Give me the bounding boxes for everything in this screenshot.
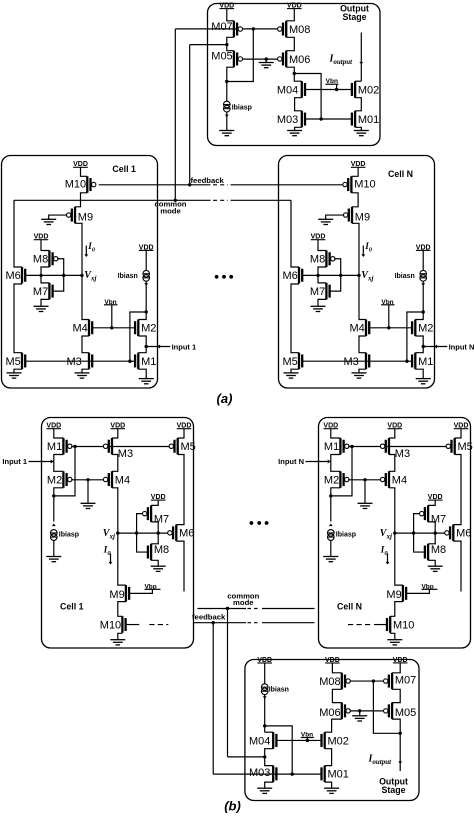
wire M8 source lead cell 1 b [151,533,158,544]
svg-text:M02: M02 [328,735,349,747]
transistor M1 cell N (a) [412,353,433,370]
junction M1 gate cell N [405,360,408,363]
ground Ibiasp cell 1 b [46,557,61,562]
svg-text:M10: M10 [65,178,86,190]
transistor M08 (b out) [319,673,350,690]
transistor M07 [211,21,242,38]
transistor M8 cell 1 (a) [33,251,58,268]
transistor M6 cell 1 (a) [6,267,26,284]
wire VDD to Ibiasn (b out) [264,663,266,684]
ground under M7 cell 1 [34,306,49,311]
transistor M7 cell N b [420,505,447,525]
wire M4-M2 gate line Vbn cell N [369,327,412,329]
transistor M08 [278,21,311,38]
junction M7/M8 gate vert cell N b [412,531,415,534]
wire M2 drain node cell N b [331,488,341,522]
transistor M2 cell N (a) [412,320,433,337]
wire input cell 1 [146,346,170,348]
wire M6 drain rail cell N b [453,541,461,591]
ground mid cell 1 b [81,503,96,508]
junction cascode gate ground [265,57,268,60]
svg-text:M2: M2 [418,323,433,335]
svg-text:M1: M1 [47,441,62,453]
svg-text:M6: M6 [456,528,471,540]
svg-text:M04: M04 [277,84,298,96]
svg-text:M8: M8 [431,544,446,556]
ground under M03 (a out) [287,131,302,136]
arrow Ibiasp [225,115,229,118]
svg-text:M02: M02 [358,84,379,96]
junction M06 drain node [293,72,296,75]
wire M7 gate down cell 1 b [137,514,143,533]
svg-text:Ibiasp: Ibiasp [59,531,79,538]
wire M07 drain to M05 source, node feedback-in [227,37,234,50]
transistor M05 [211,51,242,68]
svg-text:M05: M05 [211,51,232,63]
wire M2 source lead cell 1 [138,312,146,320]
svg-text:M10: M10 [393,619,414,631]
Io arrow cell 1 [85,246,87,255]
wire gate node to M05 drain (b out) [373,681,400,733]
VDD left (b out) [257,657,272,664]
ground under Ibiasp [219,131,234,136]
wire M01 drain to ground [355,127,361,130]
wire M8 drain to M7 source cell N [318,267,326,283]
svg-text:M08: M08 [319,676,340,688]
svg-text:M5: M5 [181,441,196,453]
wire Ibiasn to M04 source (b out) [264,695,266,733]
wire Ibiasp to ground cell 1 b [53,541,55,557]
transistor M04 (a out) [277,81,305,98]
wire Ibiasp to ground [226,112,228,131]
junction Vbn (b out) [306,739,309,742]
junction Vxj cell N b [393,531,396,534]
arrow Ibiasn cell 1 [144,283,148,286]
wire M10 drain to M9 source cell1 [75,193,87,207]
transistor M7 cell 1 b [143,505,170,525]
wire M8 drain to ground cell 1 b [151,560,158,566]
transistor M2 cell N b [324,471,349,488]
wire common vertical (b) [227,609,229,757]
junction input node cell 1 [145,345,148,348]
junction M1 gate cell 1 b [73,445,76,448]
output stage (b) box [245,660,419,801]
wire M04 drain to M03 source (b out) [265,749,274,766]
svg-text:M7: M7 [154,513,169,525]
arrow Ibiasp cell N b [329,524,333,527]
junction M8 drain cell N [316,274,319,277]
svg-text:M07: M07 [211,21,232,33]
ground under M01 (a out) [354,131,369,136]
wire M9 gate Vbp cell N b [406,589,429,593]
ground under M3 cell 1 [75,373,90,378]
junction M2 drain cell 1 b [52,494,55,497]
ground under M1 cell N [416,379,431,384]
arrow Ibiasp cell 1 b [52,524,56,527]
wire VDD to M08 source [286,9,294,21]
svg-text:M4: M4 [73,323,88,335]
wire M01 drain to ground (b out) [325,782,332,788]
common-mode line (b) [197,608,246,610]
wire M8 source lead cell N b [428,533,435,544]
VDD rail for M08 [287,3,302,10]
junction M05 drain node [225,80,228,83]
VDD for M8 cell N [311,234,326,241]
wire bias branch down (b out) [265,726,293,774]
current source Ibiasp (a) [224,101,231,112]
wire M9 drain to M10 source cell1 b [118,602,126,617]
wire M05 node to gate bias node [227,29,254,82]
ground at M05/M06 gates [259,63,274,68]
VDD M5 cell 1 b [177,423,192,430]
svg-text:M3: M3 [118,448,133,460]
transistor M5 cell N b [446,438,473,455]
transistor M8 cell 1 b [148,544,169,561]
svg-text:M01: M01 [358,114,379,126]
svg-text:M7: M7 [310,286,325,298]
svg-text:M2: M2 [141,323,156,335]
VDD M7 cell 1 b [151,494,166,501]
svg-text:M10: M10 [100,619,121,631]
junction Vbn [335,88,338,91]
wire M8 gate up cell N b [414,533,425,552]
svg-text:Cell N: Cell N [337,602,362,612]
junction M7/M8 gate vert cell 1 b [135,531,138,534]
wire M7 gate down cell N b [414,514,420,533]
junction M7 drain cell 1 b [157,531,160,534]
wire VDD to M07 source [227,9,234,21]
wire M7 gate up cell N [330,275,341,291]
svg-text:M2: M2 [47,474,62,486]
wire common-mode into M07 gate region [175,28,237,30]
transistor M07 (b out) [384,673,417,690]
wire M07 drain to M05 source (b out) [392,689,400,702]
svg-text:M9: M9 [78,212,93,224]
transistor M5 cell N (a) [283,353,303,370]
wire M02 drain to M01 source (b out) [325,749,332,766]
svg-text:M2: M2 [324,474,339,486]
transistor M04 (b out) [249,732,276,749]
svg-text:M5: M5 [283,356,298,368]
wire diode branch cell 1 b [54,447,75,496]
wire M5 drain to M6 source cell N b [453,455,461,525]
VDD M7 cell N b [428,494,443,501]
svg-text:M6: M6 [6,270,21,282]
svg-text:M5: M5 [6,356,21,368]
wire M1 drain to ground cell 1 [138,369,146,378]
wire M10 gate dashes cell1 b [126,624,140,626]
junction Vxj cell 1 b [116,531,119,534]
wire VDD to M3 source cell N b [389,429,395,438]
label common mode (b) [227,592,259,608]
junction feedback (b) [212,621,215,624]
junction common [174,199,177,202]
svg-text:M6: M6 [179,528,194,540]
output stage (a) box [208,4,381,146]
wire M4 drain / Vxj rail cell 1 b [112,488,126,585]
transistor M8 cell N (a) [310,251,335,268]
stub to ground cell 1 b [87,480,89,504]
Io arrow cell N b [387,554,389,563]
wire M10 drain to M9 source cellN [351,193,358,207]
wire feedback into M07/M05 node [190,44,227,46]
wire M6 drain to M5 source cell N [291,284,299,353]
transistor M10 cellN b [387,616,414,633]
junction M1 gate cell N b [350,445,353,448]
VDD M1 cell N b [323,423,338,430]
wire M03 drain to ground [295,127,302,130]
wire M03-M01 gate line [305,118,352,120]
dots between cells (b) [250,521,269,525]
wire Ibiasn to M2 source cell N [422,281,424,312]
svg-text:Input N: Input N [278,457,304,466]
transistor M8 cell N b [425,544,446,561]
junction mid ground cell 1 b [86,478,89,481]
arrow Ibiasn cell N [421,283,425,286]
junction M7/M8 gates cell N [339,274,342,277]
transistor M10 cellN (a) [351,167,358,176]
wire M2 source lead cell N [415,312,423,320]
svg-text:M3: M3 [344,356,359,368]
wire M9 drain / Io rail cell N [352,223,366,319]
transistor M1 cell 1 b [47,438,72,455]
transistor M3 cell 1 (a) [67,353,93,370]
label common mode (a) [154,200,186,216]
svg-text:M4: M4 [350,323,365,335]
wire M03 drain to ground (b out) [265,782,274,788]
gate line M1-M3-M5 cell 1 b [71,446,169,448]
wire gate to ground stub [265,59,267,62]
gate line M08-M07 (b out) [350,680,385,682]
feedback line (b) [194,622,246,624]
wire VDD to M5 source cell N b [455,429,461,438]
wire M02 drain to M01 source [355,98,361,111]
junction input node cell N [422,345,425,348]
junction feedback [188,183,191,186]
ground under M5 cell 1 [7,373,22,378]
wire M08 drain to M06 source [286,37,294,50]
wire M1 drain to M2 source cell 1 b [54,455,64,472]
wire M6 drain rail cell 1 b [176,541,184,591]
ground under M03 (b out) [257,788,272,793]
wire M7 drain lead cell N b [428,522,435,533]
junction gate bias node [252,27,255,30]
wire VDD to M07 source (b out) [392,663,400,673]
cell N (a) box [279,156,435,389]
ground under M5 cell N [284,373,299,378]
VDD rail for M07 [219,3,234,10]
wire M8 drain to ground cell N b [428,560,435,566]
svg-text:M03: M03 [249,767,270,779]
junction Vxj cell N [357,274,360,277]
transistor M5 cell 1 b [169,438,196,455]
wire VDD to M5 source cell 1 b [178,429,184,438]
wire M6 drain to M5 source cell 1 [14,284,22,353]
cell 1 (b) box [42,418,194,649]
junction M2 drain cell N b [329,494,332,497]
feedback line (a) [99,184,211,186]
stub to ground cell N b [364,480,366,504]
svg-text:Ibiasp: Ibiasp [336,531,356,538]
ground under M3 cell N [352,373,367,378]
gate line M03-M01 (b out) [276,773,321,775]
transistor M6 cell N b [445,525,472,542]
wire M9 gate to ground cell N [326,215,345,219]
label Vbn (a out) [326,78,339,89]
wire M06 drain to M04 source [286,67,302,81]
wire VDD to M3 source cell 1 b [112,429,118,438]
wire M02 source lead [355,80,361,82]
wire feedback into M03 gate (b out) [213,773,276,775]
svg-text:Stage: Stage [382,785,406,795]
label Vbp cell N b [421,583,437,590]
ground at M9 gate cell N [318,219,333,224]
svg-text:M06: M06 [289,54,310,66]
wire VDD to M08 source (b out) [332,663,341,673]
svg-text:M03: M03 [277,114,298,126]
wire M02 source up to M06 drain (b out) [325,719,342,732]
VDD M1 cell 1 b [46,423,61,430]
VDD M3 cell 1 b [110,423,125,430]
wire M05 drain down to Ibiasp [227,67,234,101]
label Vbn (b out) [301,732,314,741]
transistor M03 (a out) [277,111,305,128]
current source Ibiasn (b out) [261,684,268,695]
transistor M01 (b out) [322,766,349,783]
cell N (b) box [319,418,471,649]
wire bias branch to M1 gate cell 1 [130,312,146,361]
transistor M9 cell N b [386,585,406,602]
junction M07-M05 node [225,43,228,46]
wire M10 gate dashes cellN b [374,624,387,626]
svg-text:M01: M01 [328,769,349,781]
junction M2 source cell 1 [145,310,148,313]
gate line M1-M3-M5 cell N b [348,446,446,448]
svg-text:M04: M04 [249,735,270,747]
svg-text:(a): (a) [217,391,233,406]
transistor M02 (a out) [352,81,379,98]
VDD M3 cell N b [387,423,402,430]
svg-text:Ibiasp: Ibiasp [232,104,252,111]
VDD mid (b out) [325,657,340,664]
Io arrow cell 1 b [110,554,112,563]
wire M8 drain to M7 source cell 1 [41,267,49,283]
svg-text:M3: M3 [395,448,410,460]
wire M3 drain to M4 source cell N b [389,455,395,472]
transistor M3 cell N b [380,438,410,460]
svg-text:feedback: feedback [191,176,225,185]
junction mid ground cell N b [363,478,366,481]
wire M9 gate to ground cell 1 [49,215,67,219]
transistor M05 (b out) [384,703,417,720]
svg-text:Cell N: Cell N [388,169,413,179]
current source Ibiasn cell 1 [143,270,150,281]
ground under M10 cell1 b [110,640,125,645]
transistor M6 cell N (a) [283,267,303,284]
svg-text:M07: M07 [395,675,416,687]
dots between cells (a) [215,275,233,279]
transistor M9 cell N (a) [343,207,370,224]
ground under M01 (b out) [324,788,339,793]
junction Vbn cell N [387,326,390,329]
wire M6 source to common rail cell 1 [14,200,22,267]
svg-text:M10: M10 [354,178,375,190]
wire input cell N [423,346,447,348]
transistor M06 (b out) [319,703,350,720]
wire VDD to M1 source cell N b [331,429,341,438]
wire M9 drain / Io rail cell 1 [75,223,89,319]
junction Ioutput (b out) [399,732,402,735]
wire M08 drain to M06 source (b out) [332,689,341,702]
VDD for M8 cell 1 [34,234,49,241]
label Vbn cell N [381,299,395,328]
arrow Ibiasn (b out) [263,696,267,699]
gate line M06-M05 (b out) [350,710,385,712]
ground mid (b out) [352,716,367,721]
VDD for M10 cell N [351,161,366,168]
svg-text:Input N: Input N [449,343,474,352]
wire M4 drain to M3 source cell N [359,336,366,353]
wire M5 drain to ground cell N [291,369,299,373]
transistor M10 cell1 (a) [81,167,88,176]
wire main node to Vxj cell N [302,274,359,276]
svg-text:M1: M1 [418,356,433,368]
ground under M8 cell 1 b [151,566,166,571]
VDD for M10 cell 1 [73,161,88,168]
wire Ibiasn to M2 source cell 1 [145,281,147,312]
svg-text:Ibiasn: Ibiasn [118,273,138,280]
svg-text:Cell 1: Cell 1 [60,602,84,612]
wire feedback vertical [189,45,191,186]
ground under M7 cell N [311,306,326,311]
svg-text:M8: M8 [33,254,48,266]
transistor M02 (b out) [322,732,349,749]
transistor M1 cell N b [324,438,349,455]
svg-text:mode: mode [233,598,254,607]
svg-text:(b): (b) [224,799,241,814]
wire VDD to M8 source cell N [318,240,326,251]
transistor M3 cell 1 b [103,438,133,460]
ground mid cell N b [358,503,373,508]
svg-text:M7: M7 [33,286,48,298]
stub mid ground (b out) [359,711,361,716]
gate line M04-M02 Vbn (b out) [276,739,321,741]
wire M10 drain to ground cell1 b [118,633,123,639]
svg-text:M1: M1 [324,441,339,453]
wire M2 drain node cell 1 b [54,488,64,522]
wire M2 drain to M1 source cell 1 [138,336,146,353]
wire Ibiasp to ground cell N b [330,541,332,557]
ground Ibiasp cell N b [323,557,338,562]
input wire cell 1 b [29,461,54,463]
junction M08 gate node (b out) [372,679,375,682]
svg-text:M5: M5 [458,441,473,453]
current source Ibiasp cell 1 b [51,530,58,541]
svg-text:M7: M7 [431,513,446,525]
transistor M03 (b out) [249,766,276,783]
junction M2 source cell N [422,310,425,313]
VDD for Ibiasn cell 1 [139,244,154,251]
current source Ibiasn cell N [420,270,427,281]
svg-text:M9: M9 [386,589,401,601]
label Vbn cell 1 [104,299,118,328]
transistor M06 [278,51,311,67]
junction common (b) [226,607,229,610]
wire feedback vertical (b) [212,623,214,774]
transistor M7 cell N (a) [310,283,330,300]
junction mid ground (b out) [358,709,361,712]
wire M05-M06 gate line [243,58,279,60]
